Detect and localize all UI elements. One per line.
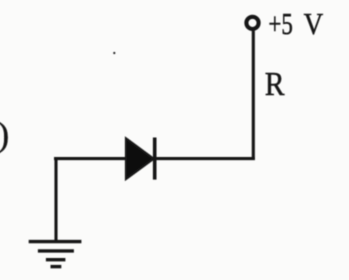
svg-text:V: V	[304, 6, 324, 41]
svg-text:R: R	[265, 66, 285, 103]
svg-text:+5: +5	[268, 6, 292, 41]
wire horizontal	[54, 157, 255, 160]
stray ink dot	[113, 52, 115, 54]
ground	[29, 242, 82, 267]
wire vertical (R branch)	[252, 31, 255, 160]
terminal +5V	[246, 17, 258, 29]
wire to ground	[54, 159, 57, 242]
diode D1	[126, 138, 155, 180]
svg-text:): )	[0, 116, 9, 154]
